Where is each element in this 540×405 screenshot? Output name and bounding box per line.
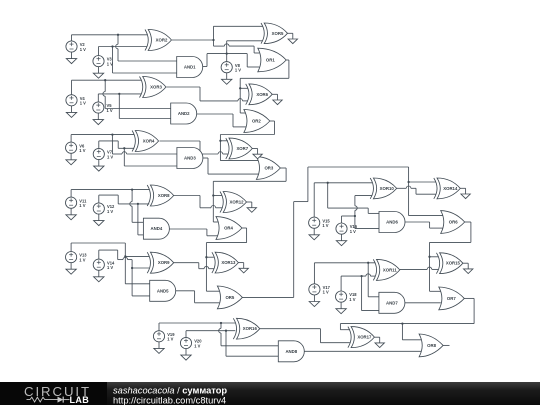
svg-text:OR8: OR8 [427, 343, 436, 348]
svg-text:1 V: 1 V [107, 108, 113, 113]
svg-text:1 V: 1 V [323, 290, 329, 295]
svg-text:AND3: AND3 [184, 156, 196, 161]
svg-text:OR3: OR3 [264, 166, 273, 171]
svg-text:1 V: 1 V [107, 209, 113, 214]
svg-text:XOR14: XOR14 [443, 186, 458, 191]
svg-text:1 V: 1 V [79, 148, 85, 153]
svg-text:AND2: AND2 [178, 111, 190, 116]
svg-text:XOR6: XOR6 [256, 92, 268, 97]
svg-text:XOR13: XOR13 [221, 260, 236, 265]
svg-text:OR6: OR6 [449, 220, 458, 225]
svg-text:1 V: 1 V [80, 47, 86, 52]
svg-text:XOR8: XOR8 [158, 193, 170, 198]
svg-text:1 V: 1 V [167, 337, 173, 342]
svg-text:XOR12: XOR12 [229, 200, 244, 205]
svg-text:1 V: 1 V [79, 203, 85, 208]
svg-text:OR7: OR7 [447, 296, 456, 301]
svg-text:XOR10: XOR10 [380, 186, 395, 191]
svg-text:XOR2: XOR2 [156, 38, 168, 43]
svg-text:XOR5: XOR5 [272, 31, 284, 36]
svg-text:AND5: AND5 [157, 288, 169, 293]
svg-text:AND6: AND6 [386, 220, 398, 225]
svg-text:AND4: AND4 [151, 226, 163, 231]
svg-text:XOR4: XOR4 [143, 139, 155, 144]
svg-text:XOR7: XOR7 [236, 146, 248, 151]
svg-text:AND8: AND8 [285, 349, 297, 354]
svg-text:XOR9: XOR9 [158, 260, 170, 265]
svg-text:1 V: 1 V [107, 154, 113, 159]
svg-text:1 V: 1 V [349, 297, 355, 302]
svg-text:1 V: 1 V [350, 229, 356, 234]
svg-text:OR1: OR1 [266, 58, 275, 63]
svg-text:XOR11: XOR11 [383, 267, 397, 272]
svg-text:XOR17: XOR17 [357, 335, 372, 340]
svg-text:1 V: 1 V [107, 265, 113, 270]
svg-text:1 V: 1 V [107, 61, 113, 66]
svg-text:XOR3: XOR3 [150, 85, 162, 90]
svg-text:XOR16: XOR16 [243, 326, 258, 331]
svg-text:1 V: 1 V [322, 223, 328, 228]
svg-text:1 V: 1 V [80, 101, 86, 106]
svg-text:XOR15: XOR15 [446, 261, 461, 266]
svg-text:OR2: OR2 [252, 119, 261, 124]
svg-text:OR4: OR4 [224, 226, 233, 231]
svg-text:OR5: OR5 [225, 295, 234, 300]
svg-text:AND1: AND1 [184, 65, 196, 70]
svg-text:1 V: 1 V [194, 343, 200, 348]
svg-text:1 V: 1 V [235, 68, 241, 73]
svg-text:1 V: 1 V [79, 257, 85, 262]
svg-text:LAB: LAB [70, 395, 90, 405]
svg-text:AND7: AND7 [386, 300, 398, 305]
svg-text:sashacocacola / сумматор: sashacocacola / сумматор [113, 386, 227, 396]
svg-text:http://circuitlab.com/c8turv4: http://circuitlab.com/c8turv4 [113, 395, 226, 405]
